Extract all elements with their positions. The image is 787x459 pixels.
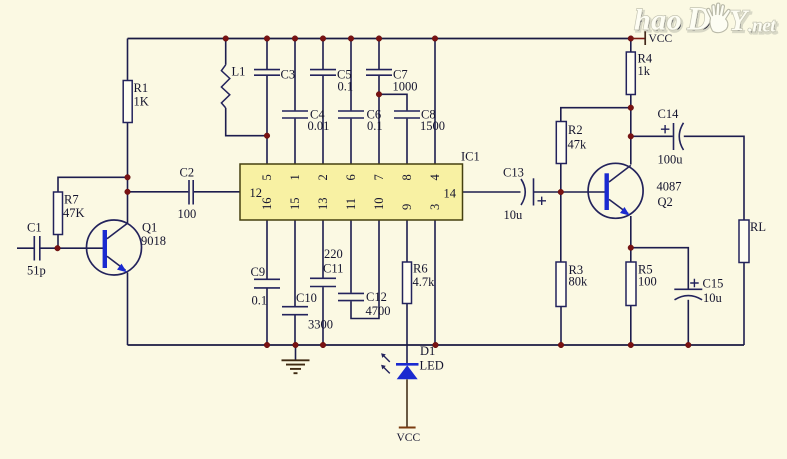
svg-text:C1: C1 <box>27 221 42 235</box>
wire C15 branch <box>631 248 689 289</box>
capacitor C7 <box>366 68 418 94</box>
wire pin 7 line through C7 <box>378 39 380 165</box>
junction C9 bottom rail <box>264 342 270 348</box>
wire pin 15 line through C10 <box>294 220 296 345</box>
svg-text:1k: 1k <box>638 64 651 78</box>
wire R7 bottom lead <box>57 235 59 249</box>
svg-text:C10: C10 <box>296 291 317 305</box>
capacitor C8 <box>394 108 445 134</box>
wire Q1 emitter down to rail <box>127 273 129 346</box>
svg-text:9: 9 <box>400 204 414 210</box>
svg-text:4087: 4087 <box>657 180 682 194</box>
capacitor C4 <box>282 108 329 134</box>
wire R5 bottom lead <box>630 306 632 346</box>
svg-text:VCC: VCC <box>397 432 421 444</box>
svg-text:6: 6 <box>344 174 358 180</box>
svg-text:Q1: Q1 <box>142 221 157 235</box>
svg-text:C12: C12 <box>366 290 387 304</box>
svg-text:47K: 47K <box>63 206 85 220</box>
wire bottom rail <box>128 344 745 346</box>
resistor RL <box>739 220 766 263</box>
svg-text:100u: 100u <box>658 153 684 167</box>
svg-text:0.1: 0.1 <box>367 119 383 133</box>
power VCC bottom <box>397 379 421 444</box>
svg-text:2: 2 <box>316 174 330 180</box>
svg-text:.net: .net <box>748 16 776 37</box>
junction L1 top rail <box>223 36 229 42</box>
wire RL bottom lead <box>743 263 745 346</box>
svg-text:C2: C2 <box>180 166 195 180</box>
junction R5 bottom rail <box>628 342 634 348</box>
wire R2 lower lead <box>560 164 562 193</box>
svg-text:80k: 80k <box>569 275 589 289</box>
junction C11 bottom rail <box>320 342 326 348</box>
svg-text:Y: Y <box>729 4 750 37</box>
junction Q2 base node <box>558 189 564 195</box>
junction pin3 bottom rail <box>433 342 439 348</box>
wire R4 bottom to C14 node to Q2 collector <box>630 95 632 165</box>
wire L1 top lead <box>225 39 227 65</box>
svg-text:hao: hao <box>634 4 682 37</box>
wire pin 1 line through C4 <box>294 39 296 165</box>
wire C2 branch from collector node <box>128 191 189 193</box>
power VCC top <box>631 31 673 45</box>
wire C15 bottom lead <box>687 300 689 345</box>
junction C15 bottom rail <box>686 342 692 348</box>
svg-text:10u: 10u <box>703 291 723 305</box>
wire pin 4 line <box>434 39 436 165</box>
wire C14 right to RL top <box>684 136 744 220</box>
wire C14 left lead <box>631 135 673 137</box>
transistor Q1 <box>87 220 167 275</box>
svg-text:13: 13 <box>316 198 330 211</box>
svg-text:C9: C9 <box>251 265 266 279</box>
junction C7-C8 branch <box>376 92 382 98</box>
wire pin 9 to R6 <box>406 220 408 262</box>
svg-text:D: D <box>686 2 711 38</box>
svg-text:14: 14 <box>444 187 457 201</box>
resistor R1 <box>123 81 149 123</box>
wire pin 13 line through C11 <box>322 220 324 345</box>
junction Q1 base node <box>55 245 61 251</box>
svg-text:0.1: 0.1 <box>252 294 268 308</box>
svg-text:4.7k: 4.7k <box>413 275 436 289</box>
wire top VCC rail <box>128 38 631 40</box>
capacitor C6 <box>338 108 383 134</box>
svg-text:C14: C14 <box>658 107 680 121</box>
capacitor C14 polarized <box>658 107 684 167</box>
junction C7 top rail <box>376 36 382 42</box>
junction L1 bottom <box>264 133 270 139</box>
resistor R7 <box>54 192 85 235</box>
svg-text:8: 8 <box>400 174 414 180</box>
capacitor C12 <box>338 290 391 318</box>
svg-text:C11: C11 <box>323 262 343 276</box>
svg-text:16: 16 <box>260 198 274 211</box>
svg-text:15: 15 <box>288 198 302 211</box>
svg-text:3: 3 <box>428 204 442 210</box>
wire Q2 base node to base <box>561 191 605 193</box>
svg-text:4: 4 <box>428 174 442 181</box>
IC U1 body <box>240 150 480 220</box>
resistor R4 <box>626 52 653 95</box>
svg-text:R2: R2 <box>568 123 583 137</box>
wire pin 16 line through C9 <box>266 220 268 345</box>
svg-text:5: 5 <box>260 174 274 180</box>
watermark logo haoDIY.net <box>634 2 778 40</box>
wire C2 to IC pin 12 <box>194 191 240 193</box>
capacitor C5 <box>310 68 353 94</box>
svg-text:220: 220 <box>324 247 343 261</box>
capacitor C10 <box>282 291 333 332</box>
junction C6 top rail <box>348 36 354 42</box>
wire R1 lower to Q1 collector <box>127 123 129 224</box>
svg-text:1K: 1K <box>134 95 149 109</box>
svg-text:1000: 1000 <box>393 80 418 94</box>
svg-text:4700: 4700 <box>366 304 391 318</box>
svg-text:47k: 47k <box>568 138 588 152</box>
junction ground node <box>293 342 299 348</box>
junction pin4 top rail <box>432 36 438 42</box>
wire R7 top branch <box>58 177 128 192</box>
wire R3 bottom lead <box>560 307 562 346</box>
junction C15 tap <box>628 245 634 251</box>
wire C1 input stub <box>17 247 34 249</box>
svg-text:0.1: 0.1 <box>338 80 354 94</box>
resistor R2 <box>556 122 587 164</box>
junction C4 top rail <box>292 36 298 42</box>
junction C5 top rail <box>320 36 326 42</box>
capacitor C9 <box>251 265 281 308</box>
wire Q2 emitter down to C15 node and R5 <box>630 216 632 262</box>
svg-text:C13: C13 <box>503 166 524 180</box>
svg-text:Q2: Q2 <box>658 195 673 209</box>
LED D1 <box>381 344 444 379</box>
resistor R6 <box>403 262 436 304</box>
svg-text:100: 100 <box>638 275 657 289</box>
wire pin 2 line through C5 <box>322 39 324 165</box>
junction C2 tap <box>125 189 131 195</box>
junction R7 tap <box>125 175 131 181</box>
transistor Q2 <box>588 163 681 218</box>
wire R1 upper segment <box>127 39 129 81</box>
wire ground stub <box>295 345 297 360</box>
svg-text:9018: 9018 <box>141 234 166 248</box>
wire R4 top lead <box>630 39 632 53</box>
ground symbol <box>282 360 310 373</box>
svg-text:R1: R1 <box>134 81 149 95</box>
svg-text:L1: L1 <box>232 65 246 79</box>
svg-text:11: 11 <box>344 198 358 210</box>
junction R4-R2 node <box>628 105 634 111</box>
wire R2 top to R4 node <box>561 108 631 122</box>
svg-text:0.01: 0.01 <box>308 119 330 133</box>
wire C13 to Q2 base node <box>534 191 561 193</box>
svg-text:C3: C3 <box>281 68 296 82</box>
svg-text:10: 10 <box>372 198 386 211</box>
capacitor C13 polarized <box>503 166 546 223</box>
capacitor C15 polarized <box>674 277 723 306</box>
svg-text:R7: R7 <box>64 193 79 207</box>
svg-text:R6: R6 <box>413 262 428 276</box>
wire R6 to LED crossing rail <box>406 304 408 364</box>
wire pin 5 line through C3 <box>266 39 268 165</box>
svg-text:VCC: VCC <box>649 33 673 45</box>
resistor R3 <box>556 262 588 307</box>
wire base node down to R3 <box>560 192 562 262</box>
capacitor C1 <box>27 221 46 278</box>
svg-text:1: 1 <box>288 174 302 180</box>
junction R3 bottom rail <box>558 342 564 348</box>
svg-text:D1: D1 <box>420 344 435 358</box>
svg-text:51p: 51p <box>27 264 46 278</box>
svg-text:C15: C15 <box>703 277 724 291</box>
capacitor C11 <box>310 247 343 287</box>
resistor R5 <box>626 262 657 306</box>
svg-text:LED: LED <box>420 359 444 373</box>
junction VCC rail right end <box>628 36 634 42</box>
wire C1 to Q1 base <box>40 247 103 249</box>
capacitor C2 <box>178 166 197 222</box>
svg-text:3300: 3300 <box>308 318 333 332</box>
svg-text:1500: 1500 <box>420 119 445 133</box>
wire pin 14 to C13 <box>463 191 521 193</box>
svg-text:IC1: IC1 <box>461 150 480 164</box>
svg-text:10u: 10u <box>504 208 524 222</box>
svg-text:100: 100 <box>178 207 197 221</box>
wire L1 bottom lead to pin5 line <box>226 108 267 136</box>
wire pin 11 through C12 to pin 10 <box>351 220 379 319</box>
junction C14 tap <box>628 134 634 140</box>
junction C3 top rail <box>264 36 270 42</box>
wire C8 branch to pin 8 <box>379 94 407 164</box>
capacitor C3 <box>254 68 295 82</box>
wire pin 3 line <box>434 220 436 345</box>
inductor L1 <box>221 65 245 108</box>
svg-text:7: 7 <box>372 174 386 180</box>
svg-text:RL: RL <box>750 220 766 234</box>
wire pin 6 line through C6 <box>350 39 352 165</box>
